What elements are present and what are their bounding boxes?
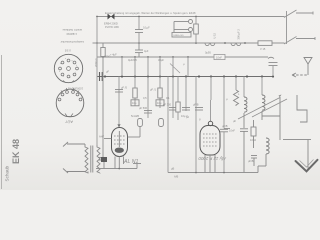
svg-text:10µ: 10µ (157, 101, 162, 105)
svg-text:300 µF 2: 300 µF 2 (237, 29, 241, 40)
svg-text:0,1: 0,1 (166, 96, 170, 100)
svg-text:µF/B: µF/B (193, 103, 199, 107)
svg-text:0µF/0,5: 0µF/0,5 (128, 58, 137, 62)
svg-text:AÜ7: AÜ7 (64, 120, 73, 125)
svg-text:µF: µF (233, 119, 236, 123)
svg-text:0µ95: 0µ95 (205, 51, 211, 55)
svg-text:µF/B: µF/B (222, 124, 228, 128)
svg-text:1000U/014 B: 1000U/014 B (68, 87, 83, 91)
svg-text:2000 Ω: 2000 Ω (94, 59, 98, 67)
svg-text:U 5/3: U 5/3 (64, 49, 71, 53)
svg-text:µF /5: µF /5 (121, 86, 128, 90)
svg-text:g: g (61, 93, 62, 95)
svg-text:Ersatzschaltung mit angegeb. W: Ersatzschaltung mit angegeb. Werten der … (105, 11, 196, 15)
svg-text:µF /1: µF /1 (150, 88, 157, 92)
svg-text:Lautsprecherstecker: Lautsprecherstecker (60, 40, 84, 44)
svg-text:Afy 12 P 2000: Afy 12 P 2000 (198, 156, 227, 161)
svg-text:a: a (57, 97, 58, 99)
svg-text:V 15: V 15 (260, 47, 266, 51)
svg-text:Schaub: Schaub (5, 165, 10, 181)
svg-text:5mΩ/B: 5mΩ/B (131, 114, 139, 118)
svg-text:g: g (72, 60, 73, 62)
svg-text:PHYW 10W: PHYW 10W (105, 25, 119, 29)
svg-text:0,5: 0,5 (143, 96, 147, 100)
svg-text:4µF: 4µF (144, 49, 149, 53)
svg-text:30µF: 30µF (158, 58, 164, 62)
svg-text:µB: µB (171, 167, 174, 171)
svg-text:a: a (65, 58, 66, 60)
svg-text:µF 300: µF 300 (163, 103, 172, 107)
svg-text:10nF: 10nF (216, 56, 222, 60)
svg-text:anschl. Gehäuse: anschl. Gehäuse (62, 28, 82, 32)
svg-text:10nF: 10nF (229, 129, 235, 133)
svg-text:100Ω: 100Ω (104, 55, 110, 59)
svg-text:h: h (81, 97, 82, 99)
svg-text:EK 48: EK 48 (11, 139, 21, 164)
svg-text:A/B: A/B (174, 175, 178, 179)
svg-text:ERB0+ND: ERB0+ND (174, 35, 185, 37)
svg-text:µF: µF (106, 70, 109, 74)
svg-text:4 /E6039: 4 /E6039 (66, 32, 77, 36)
svg-text:10kΩ: 10kΩ (250, 138, 256, 142)
svg-text:h: h (59, 71, 60, 73)
svg-text:µF 500: µF 500 (139, 106, 148, 110)
svg-text:U 15: U 15 (213, 32, 217, 38)
svg-text:10µ: 10µ (132, 101, 137, 105)
svg-text:ERB4 200D: ERB4 200D (104, 22, 118, 26)
svg-text:AL N1: AL N1 (123, 159, 138, 165)
svg-text:d: d (60, 63, 61, 65)
svg-text:AH7: AH7 (99, 135, 105, 139)
svg-text:µF/B: µF/B (248, 159, 254, 163)
svg-text:0,1µF: 0,1µF (143, 26, 150, 30)
svg-text:+ 4µF: + 4µF (110, 53, 117, 57)
